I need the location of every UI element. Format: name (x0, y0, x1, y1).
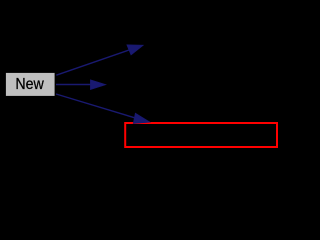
svg-text:New: New (15, 76, 44, 93)
wire: edge from New to top node (56, 45, 143, 75)
node: truncated node (red border, label invisible on black) (125, 123, 277, 147)
wire: edge from New to middle node (56, 80, 106, 90)
wire: edge from New to red node (56, 94, 150, 124)
node New (current node, grey fill) (6, 73, 55, 96)
